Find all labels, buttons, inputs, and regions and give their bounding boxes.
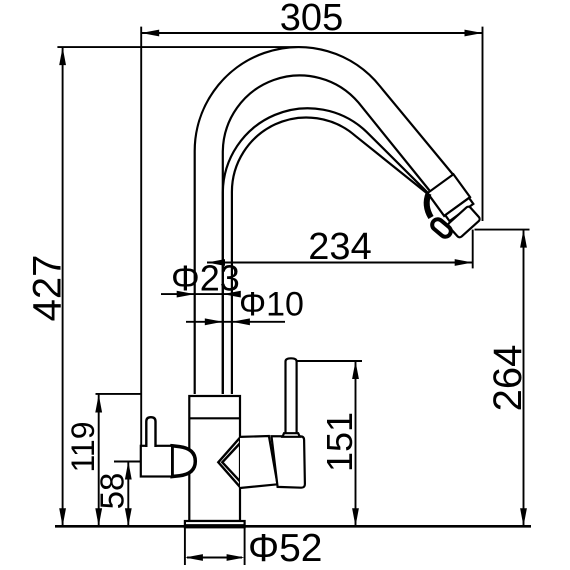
svg-text:151: 151 — [319, 412, 360, 472]
svg-text:58: 58 — [94, 473, 131, 510]
svg-text:Φ23: Φ23 — [171, 258, 240, 299]
svg-text:305: 305 — [280, 0, 343, 39]
svg-text:264: 264 — [486, 345, 530, 412]
svg-text:Φ10: Φ10 — [239, 286, 304, 324]
svg-text:234: 234 — [308, 226, 371, 268]
svg-text:427: 427 — [25, 255, 69, 322]
svg-text:119: 119 — [65, 421, 101, 472]
svg-text:Φ52: Φ52 — [248, 527, 323, 570]
